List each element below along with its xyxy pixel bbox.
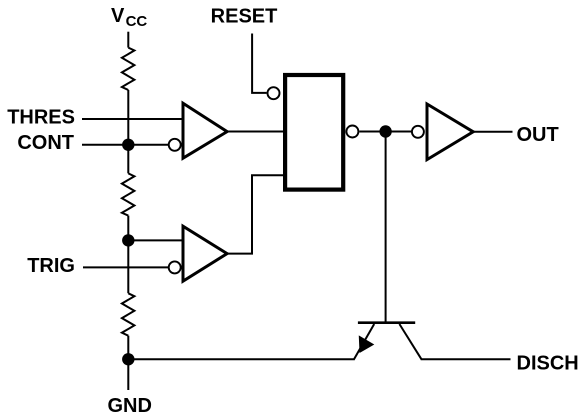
node junction ground rail xyxy=(122,353,134,365)
net VCC label xyxy=(111,5,147,30)
svg-text:THRES: THRES xyxy=(7,106,75,128)
node junction divider tap R2/R3 xyxy=(122,234,134,246)
wire RESET xyxy=(252,34,267,93)
inverting bubble RESET input xyxy=(268,87,280,99)
node junction output/base xyxy=(379,125,391,137)
wire flip-flop output to buffer xyxy=(359,131,412,133)
wire THRES xyxy=(82,118,182,120)
inverting bubble flip-flop output xyxy=(346,126,358,138)
svg-text:RESET: RESET xyxy=(211,5,278,27)
op-amp comparator U2 (trigger) xyxy=(183,226,227,281)
transistor Q1 emitter leg xyxy=(354,324,374,359)
svg-text:OUT: OUT xyxy=(517,124,559,146)
wire R3 to GND xyxy=(127,336,129,390)
wire CONT xyxy=(82,144,169,146)
wire TRIG xyxy=(83,266,169,268)
wire base of Q1 xyxy=(385,132,387,323)
wire divider tap to comparator U2 xyxy=(128,239,181,241)
inverting bubble buffer input xyxy=(412,126,424,138)
flip-flop U3 xyxy=(285,75,343,190)
op-amp comparator U1 (threshold) xyxy=(183,103,227,158)
inverting bubble U2 input xyxy=(169,261,181,273)
transistor Q1 emitter arrow xyxy=(359,336,373,352)
resistor R3 xyxy=(122,293,134,335)
transistor Q1 base bar xyxy=(358,321,415,324)
resistor R1 xyxy=(122,48,134,90)
wire VCC stub xyxy=(127,32,129,48)
svg-text:DISCH: DISCH xyxy=(517,352,579,374)
inverting bubble U1 input xyxy=(169,139,181,151)
svg-text:GND: GND xyxy=(108,395,152,417)
wire R2 to R3 xyxy=(127,216,129,294)
op-amp output buffer U4 xyxy=(427,104,473,160)
svg-text:TRIG: TRIG xyxy=(27,255,75,277)
wire buffer output to OUT xyxy=(473,131,513,133)
svg-text:V: V xyxy=(111,5,125,27)
resistor R2 xyxy=(122,173,134,215)
wire R1 to R2 xyxy=(127,90,129,173)
wire U1 output to flip-flop xyxy=(227,131,283,133)
wire U2 output to flip-flop xyxy=(227,175,283,253)
node junction CONT/divider xyxy=(122,139,134,151)
svg-text:CC: CC xyxy=(126,13,148,30)
transistor Q1 collector leg xyxy=(399,324,421,359)
wire ground rail to emitter xyxy=(128,358,354,360)
svg-text:CONT: CONT xyxy=(17,132,74,154)
wire collector to DISCH xyxy=(421,358,511,360)
